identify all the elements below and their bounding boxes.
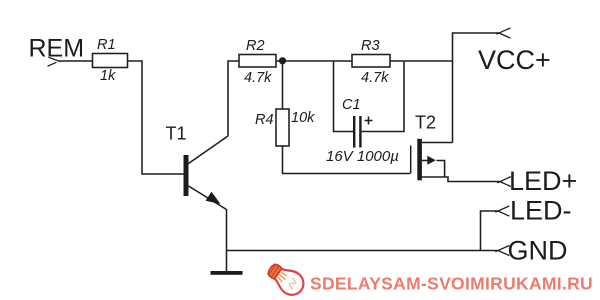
- svg-text:LED+: LED+: [509, 166, 577, 196]
- svg-text:T2: T2: [415, 113, 436, 133]
- svg-text:T1: T1: [166, 124, 187, 144]
- svg-text:SDELAYSAM-SVOIMIRUKAMI.RU: SDELAYSAM-SVOIMIRUKAMI.RU: [310, 273, 593, 293]
- watermark bulb icon: [264, 259, 308, 300]
- svg-text:GND: GND: [508, 235, 568, 265]
- svg-text:10k: 10k: [291, 110, 315, 126]
- wire LED- to GND rail: [481, 211, 499, 251]
- wire T1 emitter to ground: [226, 209, 228, 271]
- wire REM to R1: [59, 60, 93, 62]
- wire R2 to R3: [276, 60, 352, 62]
- wire T1 collector to R2: [228, 61, 239, 136]
- svg-text:4.7k: 4.7k: [361, 70, 389, 86]
- wire VCC rail to T2 drain: [452, 61, 454, 143]
- connector LED-: [495, 206, 509, 216]
- junction node: [279, 57, 286, 64]
- svg-text:16V 1000µ: 16V 1000µ: [326, 148, 399, 165]
- capacitor C1: [334, 61, 405, 148]
- resistor R4: [276, 109, 289, 146]
- wire R1 to T1 base: [128, 61, 184, 174]
- transistor T2: [411, 139, 500, 182]
- wire GND rail: [227, 250, 499, 252]
- ground: [211, 271, 243, 275]
- wire node to R4: [282, 61, 284, 109]
- svg-text:R4: R4: [255, 112, 274, 128]
- connector VCC: [496, 28, 510, 38]
- transistor T1: [184, 136, 229, 210]
- svg-text:4.7k: 4.7k: [244, 70, 272, 86]
- wire R3 to VCC: [390, 33, 499, 61]
- wire R4 to T2 gate: [283, 146, 411, 174]
- resistor R2: [239, 55, 276, 68]
- resistor R1: [93, 54, 128, 68]
- svg-text:R1: R1: [97, 37, 116, 53]
- resistor R3: [352, 55, 390, 68]
- svg-text:C1: C1: [342, 97, 361, 113]
- connector LED+: [497, 177, 511, 187]
- svg-text:1k: 1k: [100, 68, 116, 84]
- connector GND: [495, 246, 509, 256]
- svg-text:R2: R2: [246, 38, 265, 54]
- svg-text:REM: REM: [29, 35, 85, 63]
- connector REM: [48, 57, 61, 66]
- svg-text:LED-: LED-: [510, 195, 572, 225]
- svg-text:R3: R3: [361, 38, 380, 54]
- svg-text:VCC+: VCC+: [478, 45, 551, 75]
